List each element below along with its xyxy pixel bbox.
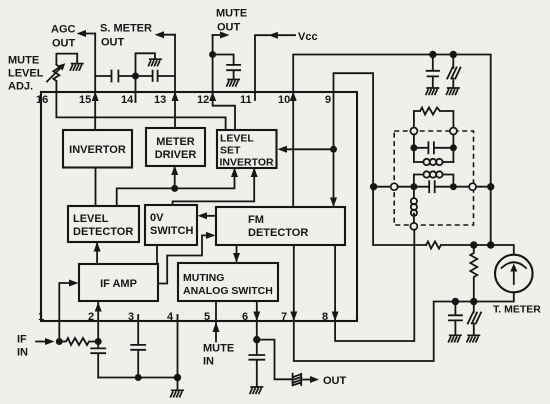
ground pin 12 bypass bbox=[226, 80, 240, 87]
resistor mute level (vertical zigzag on pin16 wire) bbox=[53, 65, 59, 82]
junction node pin 2 bbox=[95, 338, 102, 345]
wire S. METER OUT arrow line bbox=[159, 34, 175, 36]
ground pot (slashes) bbox=[70, 64, 84, 71]
junction node rail cap 1 bbox=[429, 51, 436, 58]
svg-text:DRIVER: DRIVER bbox=[155, 149, 197, 161]
pin 16 label bbox=[36, 94, 48, 106]
resistor detector line bbox=[426, 242, 441, 249]
wire node to bypass capacitor bbox=[213, 55, 234, 65]
block MUTING ANALOG SWITCH bbox=[178, 263, 278, 301]
svg-text:SWITCH: SWITCH bbox=[150, 225, 193, 237]
label MUTE OUT bbox=[216, 8, 247, 34]
wire pin 9 branch to LSI right edge bbox=[281, 148, 334, 150]
junction node on meter line bbox=[171, 185, 178, 192]
wire 0V SWITCH top to LSI bottom bbox=[173, 170, 255, 206]
dashed quad detector box bbox=[394, 131, 473, 225]
wire LEVEL DETECTOR top to METER DRIVER / LSI bottom bbox=[117, 170, 235, 207]
svg-text:12: 12 bbox=[197, 94, 209, 106]
junction node pin 12 bypass bbox=[209, 51, 216, 58]
capacitor between pin15 wire and pin14 node bbox=[112, 71, 136, 82]
svg-text:9: 9 bbox=[325, 94, 331, 106]
pin 6 label bbox=[242, 311, 248, 323]
capacitor meter return bbox=[449, 302, 462, 336]
wire pin 15 to INVERTOR top (AGC path riser) bbox=[94, 34, 96, 131]
arrowhead up at pin 15 bbox=[92, 92, 99, 102]
capacitor LC1 bbox=[414, 142, 454, 153]
wire pin 3 bbox=[137, 315, 139, 345]
svg-text:ANALOG SWITCH: ANALOG SWITCH bbox=[183, 285, 273, 297]
svg-text:16: 16 bbox=[36, 94, 48, 106]
svg-text:DETECTOR: DETECTOR bbox=[73, 226, 133, 238]
coupling element OUT (hatched) bbox=[293, 374, 302, 386]
wire top tank loop left bbox=[414, 111, 420, 128]
svg-text:5: 5 bbox=[204, 311, 210, 323]
svg-text:S. METER: S. METER bbox=[100, 23, 152, 35]
inductor tank bottom leg bbox=[411, 190, 417, 223]
arrowhead down at pin 6 bbox=[253, 312, 260, 322]
pin 4 label bbox=[167, 311, 174, 323]
junction node res line a bbox=[470, 241, 477, 248]
resistor top tank loop bbox=[420, 108, 440, 115]
svg-text:INVERTOR: INVERTOR bbox=[69, 144, 126, 156]
svg-text:IF: IF bbox=[17, 334, 27, 346]
wire bottom ground bus bbox=[98, 377, 177, 379]
wire pin 6 node to OUT bbox=[257, 340, 293, 380]
svg-text:OUT: OUT bbox=[323, 375, 347, 387]
terminal circle tank bottom bbox=[410, 223, 417, 230]
capacitor pin 2 bbox=[91, 348, 105, 377]
arrowhead down at pin 7 bbox=[290, 312, 297, 322]
label OUT bbox=[323, 375, 347, 387]
svg-text:7: 7 bbox=[281, 311, 287, 323]
pin 9 label bbox=[325, 94, 331, 106]
label S. METER OUT bbox=[100, 23, 152, 49]
svg-text:METER: METER bbox=[156, 136, 195, 148]
inductor LC1 bbox=[414, 159, 454, 165]
arrowhead up into LEVEL DETECTOR bottom bbox=[94, 242, 101, 252]
wire IF AMP out to FM DETECTOR in bbox=[158, 235, 213, 283]
IC package outline U1 bbox=[41, 92, 357, 321]
block INVERTOR bbox=[63, 130, 132, 168]
wire tank feed to dashed box left terminal bbox=[374, 186, 391, 188]
svg-text:LEVEL: LEVEL bbox=[220, 133, 254, 145]
arrowhead right OUT bbox=[301, 376, 319, 383]
wire pin 6 from MUTING bottom bbox=[256, 301, 258, 355]
arrowhead up into METER DRIVER bottom bbox=[171, 166, 178, 176]
svg-text:OUT: OUT bbox=[101, 37, 125, 49]
svg-text:SET: SET bbox=[220, 145, 241, 157]
wire pot top bracket to ground bbox=[56, 54, 77, 64]
wire INVERTOR bottom to LEVEL DETECTOR top bbox=[95, 168, 97, 207]
pin 8 label bbox=[322, 311, 328, 323]
svg-text:0V: 0V bbox=[150, 212, 164, 224]
arrowhead up MUTE IN bbox=[213, 322, 220, 332]
pin 13 label bbox=[154, 94, 166, 106]
svg-text:1: 1 bbox=[38, 311, 44, 323]
T meter circle bbox=[495, 255, 533, 293]
arrowhead up into LSI bottom (left) bbox=[231, 168, 238, 178]
svg-text:6: 6 bbox=[242, 311, 248, 323]
svg-text:3: 3 bbox=[128, 311, 134, 323]
arrowhead up into LSI bottom (right) bbox=[251, 168, 258, 178]
junction node quad tank feed bbox=[370, 183, 377, 190]
capacitor rail bypass 2 (slanted electrolytic) bbox=[447, 55, 460, 88]
junction node LC2 left bbox=[410, 183, 417, 190]
arrowhead left on Vcc line bbox=[268, 32, 278, 39]
wire pin 12 to LSI top (MUTE OUT path) bbox=[213, 35, 235, 130]
svg-text:ADJ.: ADJ. bbox=[8, 81, 33, 93]
pin 3 label bbox=[128, 311, 134, 323]
label MUTE IN bbox=[203, 343, 234, 368]
block LEVEL DETECTOR bbox=[68, 206, 139, 242]
wire MUTE OUT arrow line bbox=[213, 34, 224, 36]
pin 7 label bbox=[281, 311, 287, 323]
arrowhead left AGC OUT bbox=[77, 30, 87, 37]
svg-text:10: 10 bbox=[278, 94, 290, 106]
ground meter return cap bbox=[448, 335, 462, 342]
wire node up to METER DRIVER bottom bbox=[174, 168, 176, 189]
terminal circle tank right bbox=[469, 183, 476, 190]
pin 11 label bbox=[240, 94, 252, 106]
capacitor pin 6 bbox=[249, 355, 264, 386]
pin 14 label bbox=[121, 94, 134, 106]
block FM DETECTOR bbox=[216, 207, 345, 245]
wire pin 16 riser to mute level pot bbox=[55, 81, 57, 92]
svg-text:MUTING: MUTING bbox=[183, 272, 224, 284]
label MUTE LEVEL ADJ. bbox=[8, 55, 44, 93]
wire pin 13 riser (S.METER path) bbox=[174, 35, 176, 128]
wire pin 7 meter return bbox=[294, 245, 514, 361]
svg-text:OUT: OUT bbox=[217, 22, 241, 34]
block METER DRIVER bbox=[146, 128, 205, 166]
arrowhead up at pin 13 bbox=[172, 92, 179, 102]
wire pin 5 MUTE IN bbox=[215, 301, 217, 341]
wire pin 4 bbox=[177, 315, 179, 390]
capacitor pin 12 bypass bbox=[227, 65, 240, 80]
IF IN arrow bbox=[36, 338, 55, 345]
inductor LC2 (parallel above line) bbox=[414, 171, 454, 186]
wire FM DETECTOR bottom to MUTING switch top bbox=[236, 245, 238, 261]
capacitor pin 3 bbox=[131, 345, 145, 378]
junction node rail to tank out bbox=[487, 183, 494, 190]
arrowhead right into FM DETECTOR left edge bbox=[206, 232, 216, 239]
resistor vertical to meter return bbox=[470, 245, 477, 302]
wire pin 1 to IF AMP input bbox=[59, 283, 75, 342]
junction node pin 6 bbox=[253, 336, 260, 343]
arrowhead down into FM DETECTOR top bbox=[330, 198, 337, 208]
pin 5 label bbox=[204, 311, 210, 323]
block LEVEL SET INVERTOR bbox=[217, 130, 277, 169]
wire detector resistor line bbox=[373, 244, 426, 246]
arrowhead down at pin 8 bbox=[332, 312, 339, 322]
svg-text:MUTE: MUTE bbox=[203, 343, 234, 355]
svg-text:LEVEL: LEVEL bbox=[73, 213, 109, 225]
svg-text:AGC: AGC bbox=[51, 24, 76, 36]
wire pin 9 to FM DETECTOR top bbox=[334, 73, 374, 245]
wire resistor to T meter top bbox=[441, 245, 514, 255]
arrowhead left S. METER OUT bbox=[155, 31, 164, 38]
svg-text:8: 8 bbox=[322, 311, 328, 323]
capacitor meter return 2 (slanted electrolytic) bbox=[468, 302, 481, 336]
junction node LC1 left bbox=[410, 144, 417, 151]
resistor IF input bbox=[59, 338, 95, 345]
wire pin 10 rail (top supply rail to right side) bbox=[293, 55, 491, 246]
svg-text:11: 11 bbox=[240, 94, 252, 106]
wire top tank loop right bbox=[440, 111, 453, 128]
svg-text:LEVEL: LEVEL bbox=[8, 68, 44, 80]
junction node IF IN bbox=[56, 338, 63, 345]
block 0V SWITCH bbox=[145, 205, 197, 245]
arrowhead left into LSI right edge bbox=[278, 146, 288, 153]
junction node LC1 right bbox=[450, 144, 457, 151]
svg-text:4: 4 bbox=[167, 311, 174, 323]
svg-text:DETECTOR: DETECTOR bbox=[248, 227, 308, 239]
svg-text:15: 15 bbox=[79, 94, 91, 106]
arrowhead right into IF AMP left edge bbox=[69, 280, 79, 287]
junction node meter return a bbox=[452, 298, 459, 305]
pin 12 label bbox=[197, 94, 209, 106]
junction node pin 9 branch bbox=[330, 146, 337, 153]
junction node pin 14 bbox=[132, 73, 139, 80]
junction node LC2 right bbox=[450, 183, 457, 190]
wire pin 14 stub bbox=[135, 76, 137, 102]
junction node pin 3 bus bbox=[135, 374, 142, 381]
wire IF AMP top to LEVEL DETECTOR bottom bbox=[96, 244, 98, 265]
svg-text:13: 13 bbox=[154, 94, 166, 106]
capacitor between pin14 node and pin13 wire bbox=[136, 71, 176, 81]
svg-text:IN: IN bbox=[17, 347, 28, 359]
block IF AMP bbox=[79, 264, 158, 301]
wire pin 11 Vcc riser bbox=[255, 35, 295, 100]
arrowhead up at IF AMP bottom pin2 bbox=[95, 302, 102, 312]
arrowhead right MUTE OUT bbox=[220, 32, 230, 39]
pin 15 label bbox=[79, 94, 91, 106]
svg-text:IN: IN bbox=[203, 356, 214, 368]
junction node res line b bbox=[487, 241, 494, 248]
wire 0V SWITCH bottom to IF AMP top bbox=[156, 245, 158, 264]
terminal circle tank top left bbox=[410, 128, 417, 135]
arrowhead down into MUTING top bbox=[233, 253, 240, 263]
ground pin14 net (slashes) bbox=[148, 59, 162, 66]
svg-text:MUTE: MUTE bbox=[216, 8, 247, 20]
arrowhead left into 0V SWITCH right edge bbox=[198, 212, 208, 219]
junction node rail cap 2 bbox=[450, 51, 457, 58]
svg-text:Vcc: Vcc bbox=[298, 31, 318, 43]
wire pin 2 to IF AMP bottom bbox=[97, 301, 99, 348]
ground pin 4 bbox=[170, 390, 184, 397]
ground meter return 2 bbox=[467, 335, 481, 342]
terminal circle tank left bbox=[391, 183, 398, 190]
label Vcc bbox=[298, 31, 318, 43]
wire tank output line with capacitor LC2 bbox=[398, 181, 491, 192]
wire pin 8 to quad tank bottom bbox=[335, 230, 414, 341]
svg-text:MUTE: MUTE bbox=[8, 55, 39, 67]
label T. METER bbox=[493, 304, 541, 316]
label IF IN bbox=[17, 334, 28, 359]
svg-text:INVERTOR: INVERTOR bbox=[220, 157, 274, 169]
svg-text:OUT: OUT bbox=[52, 38, 76, 50]
pot wiper arrow bbox=[47, 63, 65, 81]
junction node meter return b bbox=[470, 298, 477, 305]
label AGC OUT bbox=[51, 24, 76, 50]
svg-text:FM: FM bbox=[248, 214, 264, 226]
T meter arrow symbol bbox=[502, 262, 527, 284]
pin 1 label bbox=[38, 311, 44, 323]
ground pin 6 bbox=[250, 387, 264, 394]
arrowhead up at pin 12 bbox=[209, 92, 216, 102]
arrowhead up at pin 10 bbox=[290, 92, 297, 102]
svg-text:14: 14 bbox=[121, 94, 134, 106]
wire pin14 node to ground bbox=[136, 53, 156, 76]
wire tank LC1 left leg bbox=[413, 135, 415, 163]
ground rail bypass 2 bbox=[446, 88, 460, 95]
svg-text:2: 2 bbox=[88, 311, 94, 323]
wire tank LC1 right leg bbox=[452, 135, 454, 163]
capacitor rail bypass 1 bbox=[427, 55, 439, 88]
svg-text:T. METER: T. METER bbox=[493, 304, 541, 316]
wire pin15 net to capacitor pair at pin 14 bbox=[95, 75, 111, 77]
pin 10 label bbox=[278, 94, 290, 106]
svg-text:IF AMP: IF AMP bbox=[100, 278, 137, 290]
ground rail bypass 1 bbox=[426, 88, 440, 95]
terminal circle tank top right bbox=[450, 128, 457, 135]
wire FM DETECTOR to 0V SWITCH bbox=[201, 215, 216, 217]
wire AGC OUT arrow line bbox=[81, 33, 95, 35]
junction node pin 4 bus bbox=[174, 374, 181, 381]
wire pin 16 internal to LEVEL SET INVERTOR top bbox=[56, 92, 225, 130]
pin 2 label bbox=[88, 311, 94, 323]
